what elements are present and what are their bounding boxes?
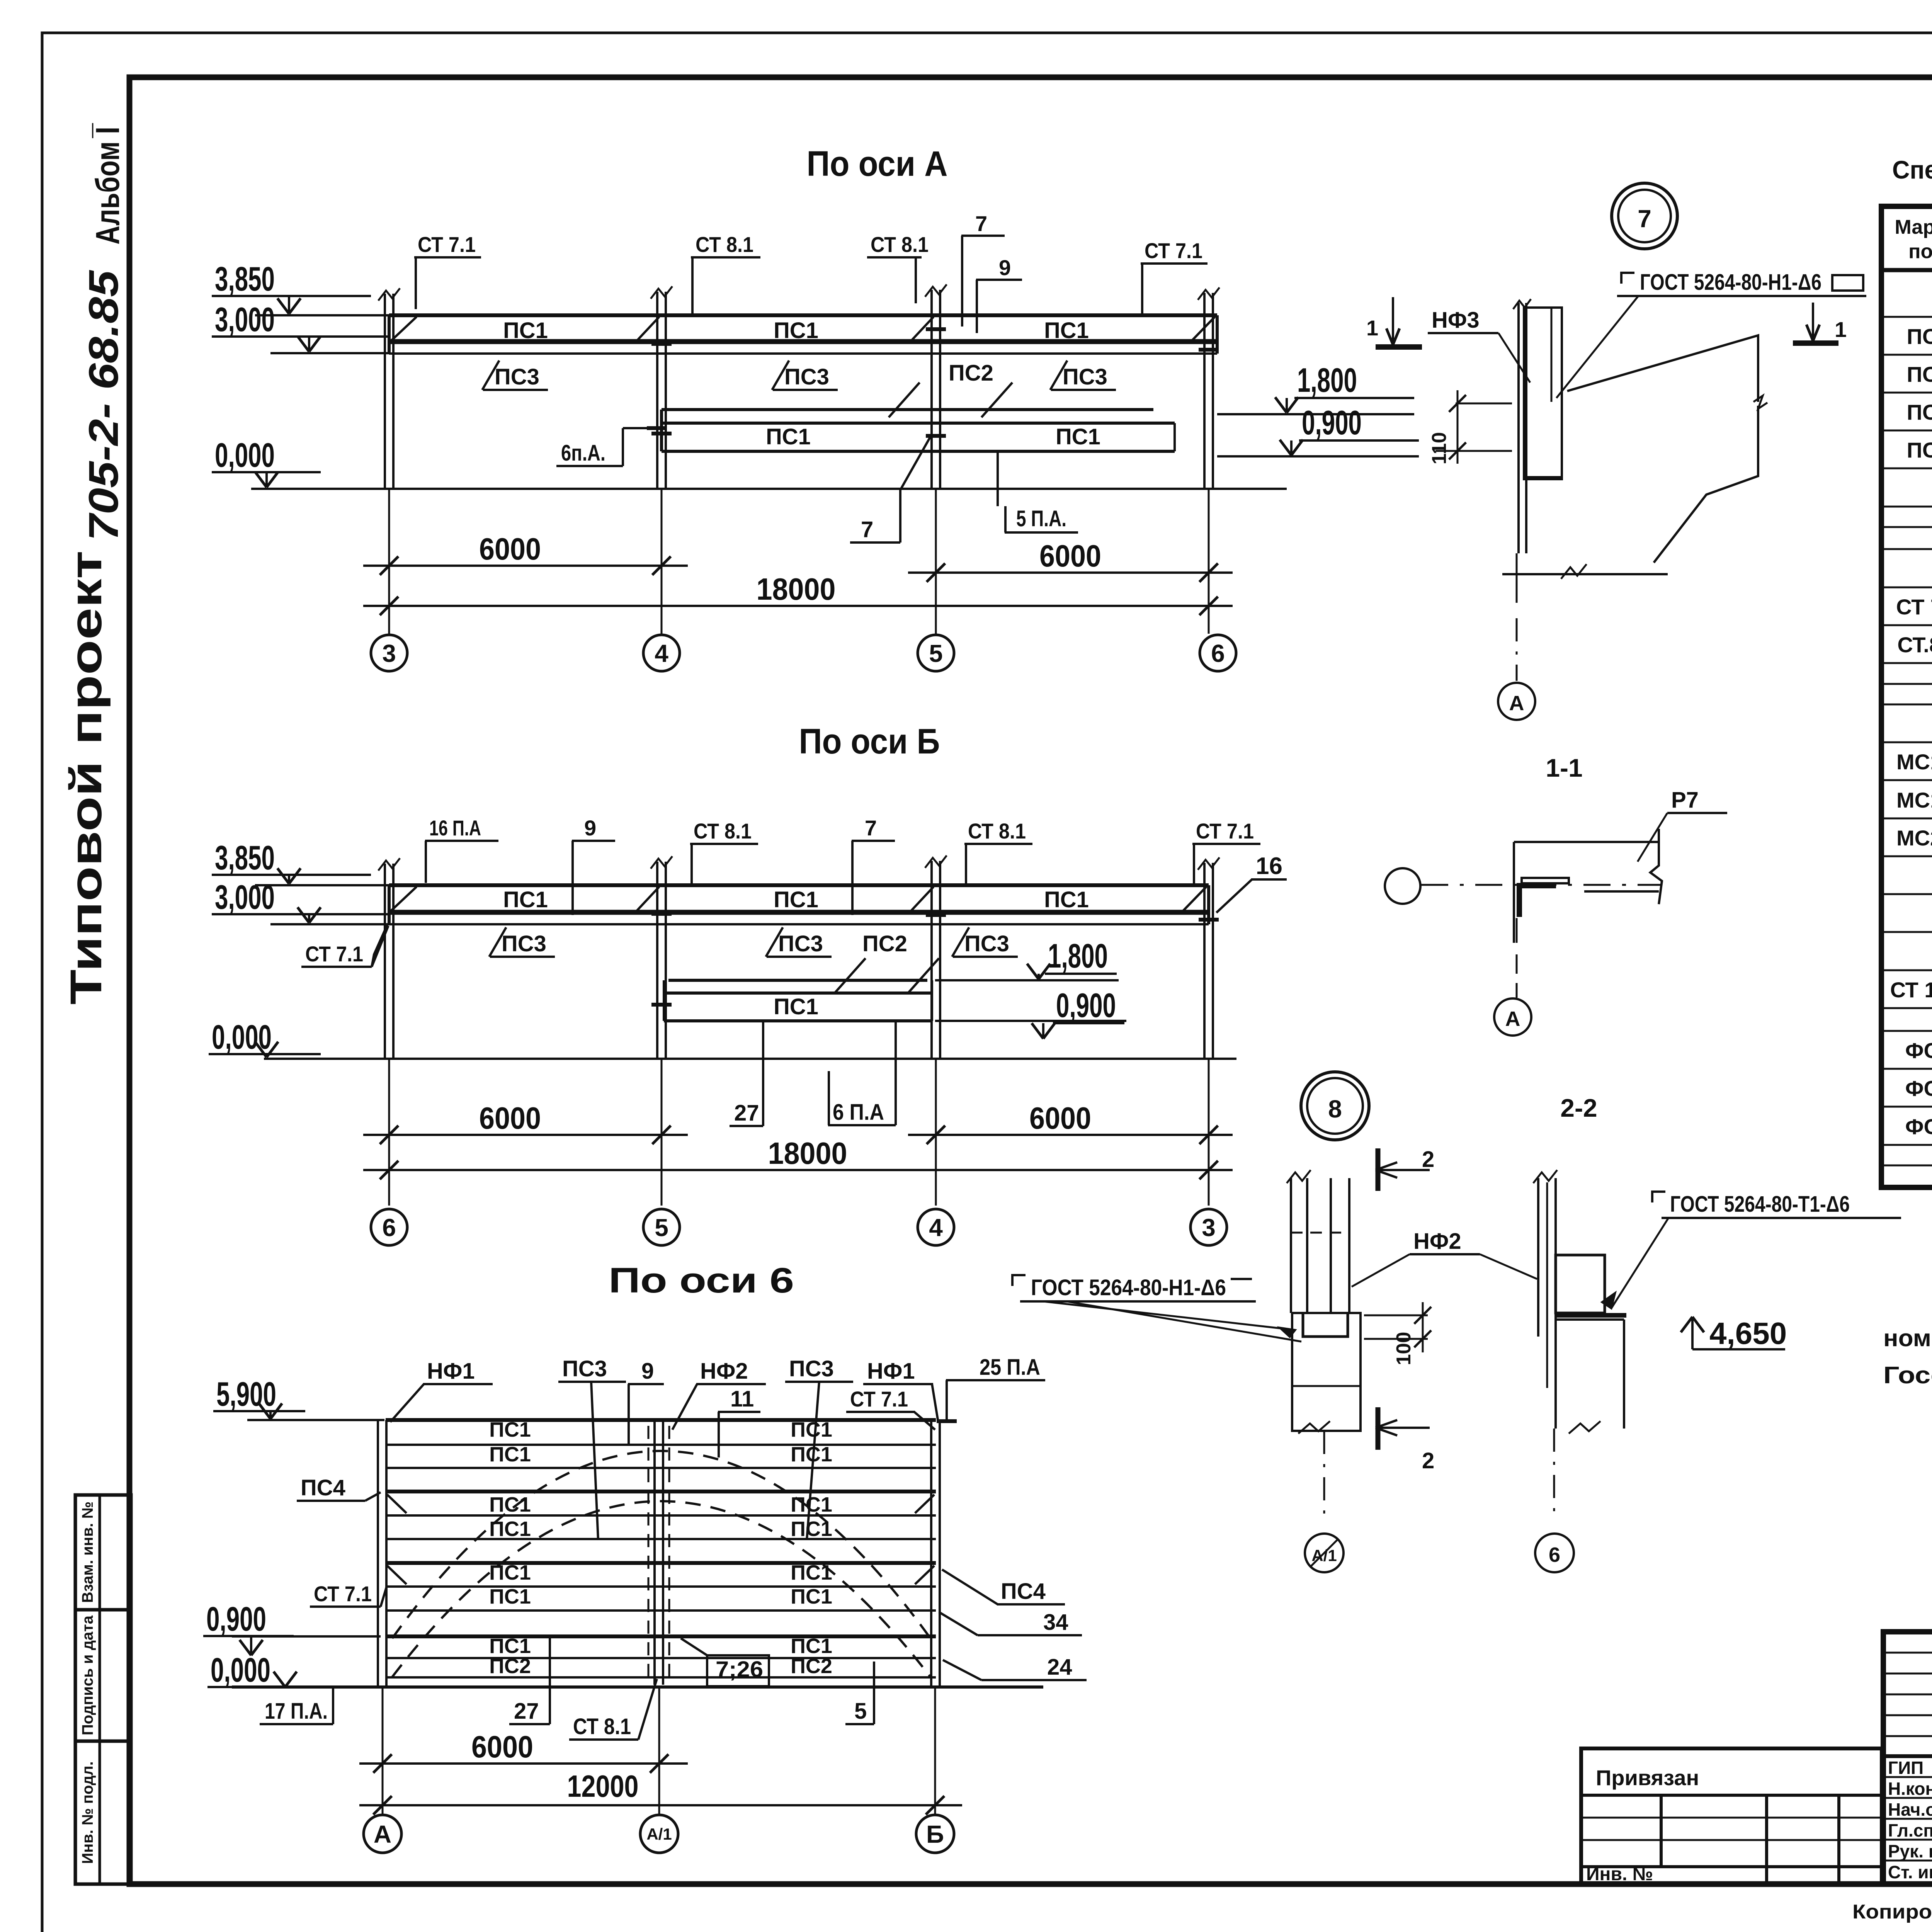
spec row to y1716 СТ.8.1 — [1881, 662, 1932, 664]
spec row to y1364 — [1881, 526, 1932, 528]
section 2-2 panel — [1537, 1178, 1539, 1337]
spec row to y2766 ФС1 — [1881, 1068, 1932, 1070]
svg-text:НФ3: НФ3 — [1432, 308, 1480, 333]
svg-text:34: 34 — [1043, 1610, 1068, 1635]
svg-text:ПС1: ПС1 — [489, 1561, 531, 1584]
svg-text:СТ.8.1: СТ.8.1 — [1897, 633, 1932, 657]
diagram B top panel band — [389, 883, 1209, 887]
svg-text:ПС1: ПС1 — [766, 424, 811, 449]
svg-text:6000: 6000 — [1039, 539, 1101, 573]
svg-text:1,800: 1,800 — [1048, 937, 1108, 975]
svg-text:По оси 6: По оси 6 — [609, 1261, 794, 1300]
svg-text:НФ2: НФ2 — [700, 1359, 748, 1384]
svg-text:6п.А.: 6п.А. — [561, 440, 605, 466]
detail 8 leaders — [1043, 1301, 1295, 1330]
diagram B lower panel band — [668, 979, 927, 982]
svg-text:27: 27 — [734, 1100, 759, 1126]
svg-text:Альбом I̅: Альбом I̅ — [89, 123, 126, 245]
diagram A column post axis6 — [1203, 293, 1206, 489]
spec table outer border — [1881, 206, 1932, 1187]
svg-text:Госстроем СССР 30 мая 1: Госстроем СССР 30 мая 1980 г. — [1883, 1362, 1932, 1389]
stamp box Подпись и дата — [75, 1610, 131, 1741]
detail 7 panel post — [1517, 303, 1520, 553]
svg-text:12000: 12000 — [567, 1769, 639, 1803]
diagram B joint marks — [651, 912, 672, 916]
diagram V right post axis Б — [930, 1420, 932, 1687]
svg-text:3,000: 3,000 — [215, 300, 275, 338]
diagram A top panel band — [389, 313, 1217, 317]
diagram B band corner diagonals — [391, 887, 417, 911]
section 2-2 bracket plate — [1556, 1255, 1605, 1313]
svg-text:1,800: 1,800 — [1297, 361, 1357, 399]
diagram V axis circle A/1 — [640, 1815, 678, 1853]
diagram B ground line — [264, 1058, 1236, 1060]
diagram B axis circle 3 — [1190, 1209, 1227, 1245]
diagram V panel stack lines — [386, 1418, 936, 1422]
svg-text:ПС3: ПС3 — [1063, 364, 1107, 389]
svg-text:НФ1: НФ1 — [427, 1359, 475, 1384]
svg-text:7;26: 7;26 — [716, 1657, 763, 1682]
spec row to y2118 МС1.5 — [1881, 818, 1932, 820]
svg-text:6 П.А: 6 П.А — [833, 1100, 884, 1125]
svg-text:ПС1: ПС1 — [503, 887, 548, 912]
detail 7 panel section outline — [1567, 335, 1758, 563]
svg-text:ПС3: ПС3 — [789, 1356, 834, 1381]
svg-text:ПС3: ПС3 — [495, 364, 539, 389]
svg-text:3: 3 — [382, 639, 396, 667]
svg-text:Н.контр: Н.контр — [1888, 1779, 1932, 1799]
svg-text:1-1: 1-1 — [1546, 753, 1582, 782]
section mark 1 right — [1812, 303, 1814, 338]
svg-text:ПС1: ПС1 — [1044, 318, 1089, 343]
svg-text:6000: 6000 — [471, 1730, 533, 1764]
svg-text:ПС1: ПС1 — [489, 1443, 531, 1466]
svg-text:Привязан: Привязан — [1596, 1765, 1699, 1790]
svg-text:110: 110 — [1428, 432, 1451, 464]
svg-text:ПС1: ПС1 — [791, 1493, 832, 1516]
spec row to y1520 Столики опорные — [1881, 587, 1932, 588]
detail 8 axis circle A/1 — [1305, 1534, 1344, 1572]
detail 7 foundation element НФ3 — [1524, 308, 1562, 479]
section 1-1 steel angle — [1519, 886, 1556, 917]
svg-text:НФ1: НФ1 — [867, 1359, 915, 1384]
svg-text:поз.: поз. — [1908, 240, 1932, 263]
svg-text:ПС3: ПС3 — [502, 931, 546, 956]
svg-text:Типовой проект: Типовой проект — [61, 551, 111, 1005]
svg-text:ПС1: ПС1 — [1044, 887, 1089, 912]
svg-text:ПС3: ПС3 — [778, 931, 823, 956]
section 2-2 foundation — [1556, 1318, 1624, 1321]
svg-text:ГОСТ 5264-80-Т1-Δ6: ГОСТ 5264-80-Т1-Δ6 — [1670, 1192, 1850, 1217]
svg-text:А: А — [374, 1820, 391, 1848]
svg-text:СТ 8.1: СТ 8.1 — [573, 1714, 631, 1739]
diagram A column post axis5 — [930, 290, 933, 489]
diagram B axis circle 6 — [371, 1209, 407, 1245]
svg-text:СТ 7.1: СТ 7.1 — [1896, 595, 1932, 619]
svg-text:Взам. инв. №: Взам. инв. № — [79, 1502, 96, 1603]
stamp box Инв.№ подл. — [75, 1741, 131, 1884]
svg-text:ПС1: ПС1 — [489, 1634, 531, 1658]
svg-text:ПС4: ПС4 — [301, 1475, 345, 1500]
svg-text:18000: 18000 — [768, 1136, 847, 1170]
svg-text:16 П.А: 16 П.А — [429, 816, 481, 840]
diagram B column post axis5 — [656, 862, 658, 1059]
spec row to y1618 СТ 7.1 — [1881, 624, 1932, 626]
svg-text:Р7: Р7 — [1671, 787, 1699, 813]
diagram B axis extension lines — [388, 1059, 390, 1206]
svg-text:0,900: 0,900 — [206, 1600, 266, 1638]
svg-text:ФС7: ФС7 — [1905, 1114, 1932, 1139]
svg-text:СТ 7.1: СТ 7.1 — [850, 1387, 908, 1411]
svg-text:ПС1: ПС1 — [791, 1634, 832, 1658]
svg-text:ПС2: ПС2 — [949, 361, 993, 386]
spec row to y1311 — [1881, 506, 1932, 508]
diagram A axis extension lines — [388, 489, 390, 634]
svg-text:7: 7 — [1638, 205, 1651, 233]
svg-text:2-2: 2-2 — [1560, 1094, 1597, 1122]
svg-text:ПС1: ПС1 — [791, 1561, 832, 1584]
svg-text:0,900: 0,900 — [1302, 403, 1362, 442]
svg-text:1: 1 — [1366, 316, 1378, 340]
svg-text:По оси А: По оси А — [807, 144, 948, 184]
detail 8 axis line to circle A/1 — [1323, 1431, 1325, 1515]
svg-text:100: 100 — [1393, 1332, 1415, 1366]
spec row to y1114 ПС3 — [1881, 430, 1932, 432]
detail 8 column — [1290, 1178, 1292, 1313]
diagram A band corner diagonals — [391, 317, 417, 341]
svg-text:ПС1: ПС1 — [489, 1585, 531, 1608]
svg-text:По оси Б: По оси Б — [799, 722, 940, 761]
svg-text:11: 11 — [730, 1386, 754, 1412]
diagram A column post axis3 — [384, 294, 386, 489]
svg-text:6: 6 — [382, 1214, 396, 1242]
diagram A axis circle 5 — [918, 635, 954, 671]
diagram B column post axis6 — [384, 864, 386, 1059]
spec row to y2668 Изделия фасонные — [1881, 1030, 1932, 1032]
svg-text:НФ2: НФ2 — [1413, 1229, 1461, 1254]
diagram A ground line — [251, 488, 1287, 490]
svg-text:ПС1: ПС1 — [791, 1585, 832, 1608]
spec row to y1770 — [1881, 683, 1932, 685]
section 2-2 support line — [1556, 1313, 1626, 1318]
detail circle 7 — [1612, 183, 1677, 249]
svg-text:7: 7 — [975, 211, 987, 236]
svg-text:6000: 6000 — [1029, 1101, 1091, 1135]
svg-text:ГОСТ 5264-80-Н1-Δ6: ГОСТ 5264-80-Н1-Δ6 — [1640, 270, 1821, 295]
spec row to y3016 — [1881, 1165, 1932, 1167]
svg-text:ПС4: ПС4 — [1001, 1579, 1046, 1604]
attachment table Привязан — [1581, 1748, 1882, 1884]
svg-text:Инв. №: Инв. № — [1586, 1864, 1653, 1884]
section 1-1 axis circle empty — [1385, 868, 1420, 904]
svg-text:ГИП: ГИП — [1888, 1758, 1923, 1778]
svg-text:СТ 7.1: СТ 7.1 — [314, 1582, 372, 1606]
svg-text:ПС3: ПС3 — [964, 931, 1009, 956]
weld label ГОСТ 5264-80-Н1-Δ6 detail 8 — [1012, 1275, 1026, 1286]
svg-text:Копировал Балакирева: Копировал Балакирева — [1852, 1901, 1932, 1923]
svg-text:Б: Б — [926, 1820, 944, 1848]
diagram A axis circle 4 — [643, 635, 680, 671]
diagram A axis circle 6 — [1200, 635, 1236, 671]
svg-text:Инв. № подл.: Инв. № подл. — [79, 1761, 96, 1864]
svg-text:18000: 18000 — [757, 572, 836, 606]
svg-text:Ст. инж.: Ст. инж. — [1888, 1862, 1932, 1882]
svg-text:ПС3: ПС3 — [1907, 400, 1932, 424]
spec row to y2963 ФС7 — [1881, 1144, 1932, 1146]
svg-text:СТ 7.1: СТ 7.1 — [305, 942, 363, 966]
title block signature rows — [1883, 1776, 1932, 1778]
svg-text:2: 2 — [1422, 1448, 1434, 1473]
svg-text:ФС4: ФС4 — [1905, 1076, 1932, 1100]
svg-text:Подпись и дата: Подпись и дата — [79, 1615, 96, 1735]
diagram B dimension line 18000 — [363, 1169, 1233, 1171]
diagram V dashed arch hidden line — [392, 1451, 930, 1638]
svg-text:ГОСТ 5264-80-Н1-Δ6: ГОСТ 5264-80-Н1-Δ6 — [1031, 1275, 1226, 1300]
spec row to y1823 — [1881, 704, 1932, 706]
spec row to y2019 МС1.1 — [1881, 779, 1932, 781]
svg-text:ПС1: ПС1 — [489, 1493, 531, 1516]
svg-text:25 П.А: 25 П.А — [980, 1355, 1040, 1380]
title block narrow rows — [1883, 1652, 1932, 1654]
svg-text:ПС1: ПС1 — [791, 1418, 832, 1441]
detail 7 leader to joint — [1556, 296, 1638, 398]
section 1-1 axis line down — [1516, 918, 1518, 943]
diagram V axis extension lines — [382, 1687, 384, 1815]
svg-text:3: 3 — [1202, 1214, 1216, 1242]
svg-text:ПС2: ПС2 — [489, 1655, 531, 1678]
diagram V center post axis A/1 — [653, 1420, 656, 1685]
svg-text:5,900: 5,900 — [216, 1375, 276, 1413]
detail 7 axis circle A — [1498, 683, 1535, 720]
svg-text:3,850: 3,850 — [215, 260, 275, 298]
diagram B axis circle 5 — [643, 1209, 680, 1245]
section 1-1 panel plan — [1514, 841, 1659, 843]
svg-text:СТ 7.1: СТ 7.1 — [1196, 819, 1254, 843]
svg-text:5: 5 — [929, 639, 943, 667]
svg-text:16: 16 — [1256, 853, 1282, 879]
diagram V axis circle A — [364, 1815, 401, 1853]
svg-text:9: 9 — [584, 816, 596, 840]
svg-text:5: 5 — [655, 1214, 668, 1242]
diagram B column post axis4 — [930, 861, 933, 1059]
spec row to y1016 ПС2 — [1881, 392, 1932, 394]
svg-text:ПС1: ПС1 — [489, 1418, 531, 1441]
svg-text:Спецификация элементов к с: Спецификация элементов к схемам располож… — [1892, 155, 1932, 184]
diagram B axis circle 4 — [918, 1209, 954, 1245]
section 2-2 axis circle Б — [1535, 1534, 1574, 1572]
svg-text:СТ 13.3: СТ 13.3 — [1890, 978, 1932, 1002]
svg-text:ПС4: ПС4 — [1907, 438, 1932, 462]
svg-text:ФС1: ФС1 — [1905, 1038, 1932, 1063]
spec row to y2511 Уголок 40×40×4, L=25 — [1881, 969, 1932, 971]
diagram A column post axis4 — [656, 292, 658, 489]
spec row to y1212 ПС4 — [1881, 468, 1932, 469]
detail 7 bottom break line — [1502, 573, 1668, 575]
spec row to y918 ПС1 — [1881, 354, 1932, 356]
svg-text:ПС1: ПС1 — [791, 1443, 832, 1466]
detail 8 dimension 100 — [1364, 1315, 1428, 1316]
svg-text:2: 2 — [1422, 1147, 1434, 1172]
diagram V corner brackets — [387, 1495, 406, 1513]
svg-text:6: 6 — [1211, 639, 1225, 667]
svg-text:ПС3: ПС3 — [784, 364, 829, 389]
diagram V axis circle Б — [916, 1815, 954, 1853]
diagram A axis circle 3 — [371, 635, 407, 671]
svg-text:6000: 6000 — [479, 1101, 541, 1135]
svg-text:ПС1: ПС1 — [774, 318, 818, 343]
svg-text:17 П.А.: 17 П.А. — [265, 1699, 328, 1724]
svg-text:ПС1: ПС1 — [503, 318, 548, 343]
weld label ГОСТ 5264-80-Т1-Δ6 section 2-2 — [1652, 1192, 1665, 1202]
detail 7 dimension 110 — [1456, 403, 1512, 405]
diagram B dimension line 6000 left — [363, 1134, 688, 1136]
spec row to y820 Панели стен — [1881, 316, 1932, 318]
spec row to y2314 Труба 10×2,0×50 — [1881, 893, 1932, 895]
svg-text:Гл.спец.: Гл.спец. — [1888, 1820, 1932, 1840]
svg-text:ПС2: ПС2 — [1907, 362, 1932, 386]
svg-text:9: 9 — [641, 1359, 654, 1384]
detail circle 8 — [1301, 1072, 1369, 1140]
svg-text:0,000: 0,000 — [215, 436, 275, 474]
svg-text:Нач.отд: Нач.отд — [1888, 1799, 1932, 1820]
spec row to y1921 Изделия соединительные — [1881, 742, 1932, 743]
diagram B column post axis3 — [1203, 863, 1206, 1059]
diagram V left post axis A — [377, 1420, 379, 1687]
svg-text:ПС2: ПС2 — [791, 1655, 832, 1678]
diagram V ground line — [232, 1685, 1043, 1689]
svg-text:5 П.А.: 5 П.А. — [1016, 506, 1066, 531]
diagram V dashed post hidden lines — [648, 1426, 650, 1677]
svg-text:24: 24 — [1047, 1655, 1072, 1680]
section 2-2 level 4.650 — [1691, 1318, 1694, 1341]
detail 7 axis line to circle A — [1516, 553, 1518, 603]
detail 8 section mark 2 bottom — [1376, 1407, 1381, 1450]
spec row to y2216 МС2.1 — [1881, 855, 1932, 857]
svg-text:СТ 8.1: СТ 8.1 — [694, 819, 752, 843]
diagram A dimension line 18000 — [363, 605, 1233, 607]
svg-text:А: А — [1509, 692, 1524, 715]
diagram A lower panel band — [662, 408, 1153, 411]
detail 8 foundation — [1292, 1313, 1361, 1431]
svg-text:СТ 8.1: СТ 8.1 — [696, 232, 753, 257]
spec row to y2412 Уголок 60×60×4, L=50 — [1881, 931, 1932, 933]
svg-text:7: 7 — [861, 517, 873, 542]
svg-text:3,850: 3,850 — [215, 838, 275, 877]
svg-text:3,000: 3,000 — [215, 878, 275, 916]
svg-text:СТ 8.1: СТ 8.1 — [968, 819, 1026, 843]
spec row to y2609 СТ 13.3 — [1881, 1007, 1932, 1009]
section 2-2 axis line — [1553, 1429, 1555, 1515]
svg-text:номенклатуре асбестоцементны: номенклатуре асбестоцементных изделий ",… — [1883, 1325, 1932, 1352]
svg-text:А/1: А/1 — [646, 1825, 672, 1843]
diagram V dimension line 6000 — [359, 1762, 688, 1765]
svg-text:0,000: 0,000 — [211, 1651, 270, 1689]
svg-text:705-2- 68.85: 705-2- 68.85 — [80, 270, 127, 541]
svg-text:СТ 7.1: СТ 7.1 — [418, 232, 476, 257]
svg-text:5: 5 — [854, 1699, 867, 1724]
section 1-1 axis circle A bottom — [1494, 998, 1531, 1036]
svg-text:МС1.1: МС1.1 — [1896, 750, 1932, 774]
svg-text:ПС1: ПС1 — [1056, 424, 1100, 449]
svg-text:МС2.1: МС2.1 — [1896, 826, 1932, 850]
svg-text:27: 27 — [514, 1699, 539, 1724]
diagram B dimension line 6000 right — [908, 1134, 1233, 1136]
svg-text:СТ 8.1: СТ 8.1 — [871, 232, 929, 257]
svg-text:ПС2: ПС2 — [862, 931, 907, 956]
svg-text:9: 9 — [999, 255, 1011, 280]
svg-text:Марка,: Марка, — [1895, 216, 1932, 238]
svg-text:0,900: 0,900 — [1056, 986, 1116, 1024]
svg-text:1: 1 — [1835, 317, 1847, 342]
svg-text:ПС1: ПС1 — [774, 994, 818, 1019]
svg-text:6: 6 — [1549, 1543, 1560, 1566]
svg-text:А: А — [1505, 1007, 1520, 1031]
svg-text:4: 4 — [655, 639, 668, 667]
spec table header row line — [1881, 268, 1932, 272]
diagram A dimension line 6000 left — [363, 565, 688, 567]
title block outer — [1883, 1632, 1932, 1884]
diagram A dimension line 6000 right — [908, 571, 1233, 574]
svg-text:4: 4 — [929, 1214, 943, 1242]
section 1-1 axis dash line — [1421, 884, 1662, 886]
svg-text:7: 7 — [865, 816, 877, 840]
svg-text:4,650: 4,650 — [1709, 1316, 1787, 1350]
svg-text:Рук. гр.: Рук. гр. — [1888, 1841, 1932, 1861]
detail 8 section mark 2 top — [1376, 1148, 1381, 1191]
svg-text:МС1.5: МС1.5 — [1896, 788, 1932, 812]
diagram V dimension line 12000 — [359, 1804, 962, 1806]
svg-text:6000: 6000 — [479, 532, 541, 566]
spec row to y2864 ФС4 — [1881, 1106, 1932, 1108]
diagram A joint marks — [926, 327, 946, 331]
svg-text:ПС1: ПС1 — [774, 887, 818, 912]
section mark 1 left — [1392, 297, 1394, 342]
svg-text:ПС1: ПС1 — [1907, 324, 1932, 349]
svg-text:8: 8 — [1328, 1095, 1342, 1123]
svg-text:СТ 7.1: СТ 7.1 — [1145, 238, 1202, 263]
stamp box Взам.инв.№ — [75, 1495, 131, 1610]
weld label ГОСТ 5264-80-Н1-Δ6 detail 7 — [1621, 273, 1634, 284]
svg-text:ПС3: ПС3 — [562, 1356, 607, 1381]
spec row to y1421 — [1881, 548, 1932, 550]
